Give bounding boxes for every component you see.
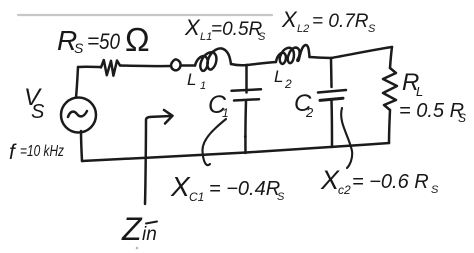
label VS: [24, 84, 45, 123]
svg-text:1: 1: [200, 80, 206, 92]
svg-text:=0.5R: =0.5R: [211, 19, 263, 40]
wire top-left segment: [78, 66, 100, 69]
svg-text:L2: L2: [297, 23, 309, 35]
label XC2: [320, 165, 439, 197]
svg-text:2: 2: [305, 105, 314, 120]
leader XC2 to C2: [341, 108, 352, 168]
svg-text:1: 1: [222, 106, 229, 120]
svg-text:X: X: [184, 15, 201, 40]
svg-text:Ω: Ω: [125, 21, 150, 58]
label L1: [187, 70, 206, 92]
svg-text:2: 2: [284, 77, 292, 91]
svg-text:L: L: [187, 70, 196, 89]
label Zin: [121, 211, 157, 247]
svg-text:= 0.7R: = 0.7R: [312, 11, 369, 32]
wire resistor to node: [120, 64, 171, 67]
capacitor C2 plates: [318, 90, 346, 93]
wire bottom-left vertical: [81, 131, 82, 161]
wire right vertical lower: [389, 110, 390, 143]
label L2: [274, 67, 292, 91]
svg-text:= −0.4R: = −0.4R: [209, 178, 280, 200]
wire bottom: [82, 143, 389, 161]
wire C1 junction to L2: [247, 62, 276, 65]
svg-text:X: X: [320, 165, 340, 195]
label RS = 50 ohm: [57, 21, 150, 58]
svg-text:c2: c2: [338, 183, 351, 197]
inductor L1: [195, 48, 231, 70]
label C2: [294, 90, 314, 120]
wire C2 junction to top-right corner: [331, 47, 392, 58]
node (small open loop): [171, 59, 180, 70]
label f = 10 kHz: [9, 141, 64, 164]
inductor L2: [276, 45, 310, 64]
label RL: [399, 69, 466, 125]
leader XC1 to C1: [202, 119, 226, 165]
svg-text:S: S: [31, 101, 45, 123]
capacitor C2 top lead: [330, 58, 333, 87]
svg-text:S: S: [458, 111, 466, 125]
svg-text:= −0.6 R: = −0.6 R: [352, 171, 429, 193]
svg-text:S: S: [431, 184, 439, 196]
svg-text:S: S: [258, 31, 266, 43]
svg-text:S: S: [74, 40, 84, 56]
wire L1 to C1 junction: [231, 64, 247, 65]
capacitor C1 plates: [232, 89, 262, 91]
wire L2 to C2 junction: [310, 57, 332, 58]
svg-text:Z: Z: [121, 211, 143, 247]
svg-text:L: L: [416, 84, 423, 99]
svg-text:in: in: [142, 224, 157, 245]
svg-text:S: S: [277, 191, 285, 203]
svg-text:C1: C1: [189, 190, 204, 204]
svg-text:=10 kHz: =10 kHz: [20, 143, 64, 160]
label C1: [208, 91, 229, 120]
voltage source VS: [61, 98, 96, 133]
resistor RL: [383, 68, 397, 110]
wire right vertical upper: [390, 47, 392, 68]
Zin arrow: [145, 116, 171, 204]
capacitor C1 bottom lead: [244, 101, 247, 154]
label XL2: [281, 7, 376, 35]
svg-text:= 0.5 R: = 0.5 R: [399, 100, 464, 122]
svg-text:X: X: [281, 7, 298, 32]
label XC1: [170, 171, 285, 204]
capacitor C1 top lead: [245, 65, 248, 93]
svg-text:L: L: [274, 67, 283, 86]
svg-text:=: =: [87, 30, 99, 53]
wire source top lead: [76, 67, 78, 98]
svg-text:S: S: [368, 23, 376, 35]
svg-text:X: X: [170, 171, 191, 202]
capacitor C2 bottom lead: [330, 101, 333, 148]
svg-text:50: 50: [99, 29, 121, 54]
label XL1: [184, 15, 266, 43]
wire node to L1: [182, 64, 195, 67]
resistor RS: [101, 60, 120, 76]
